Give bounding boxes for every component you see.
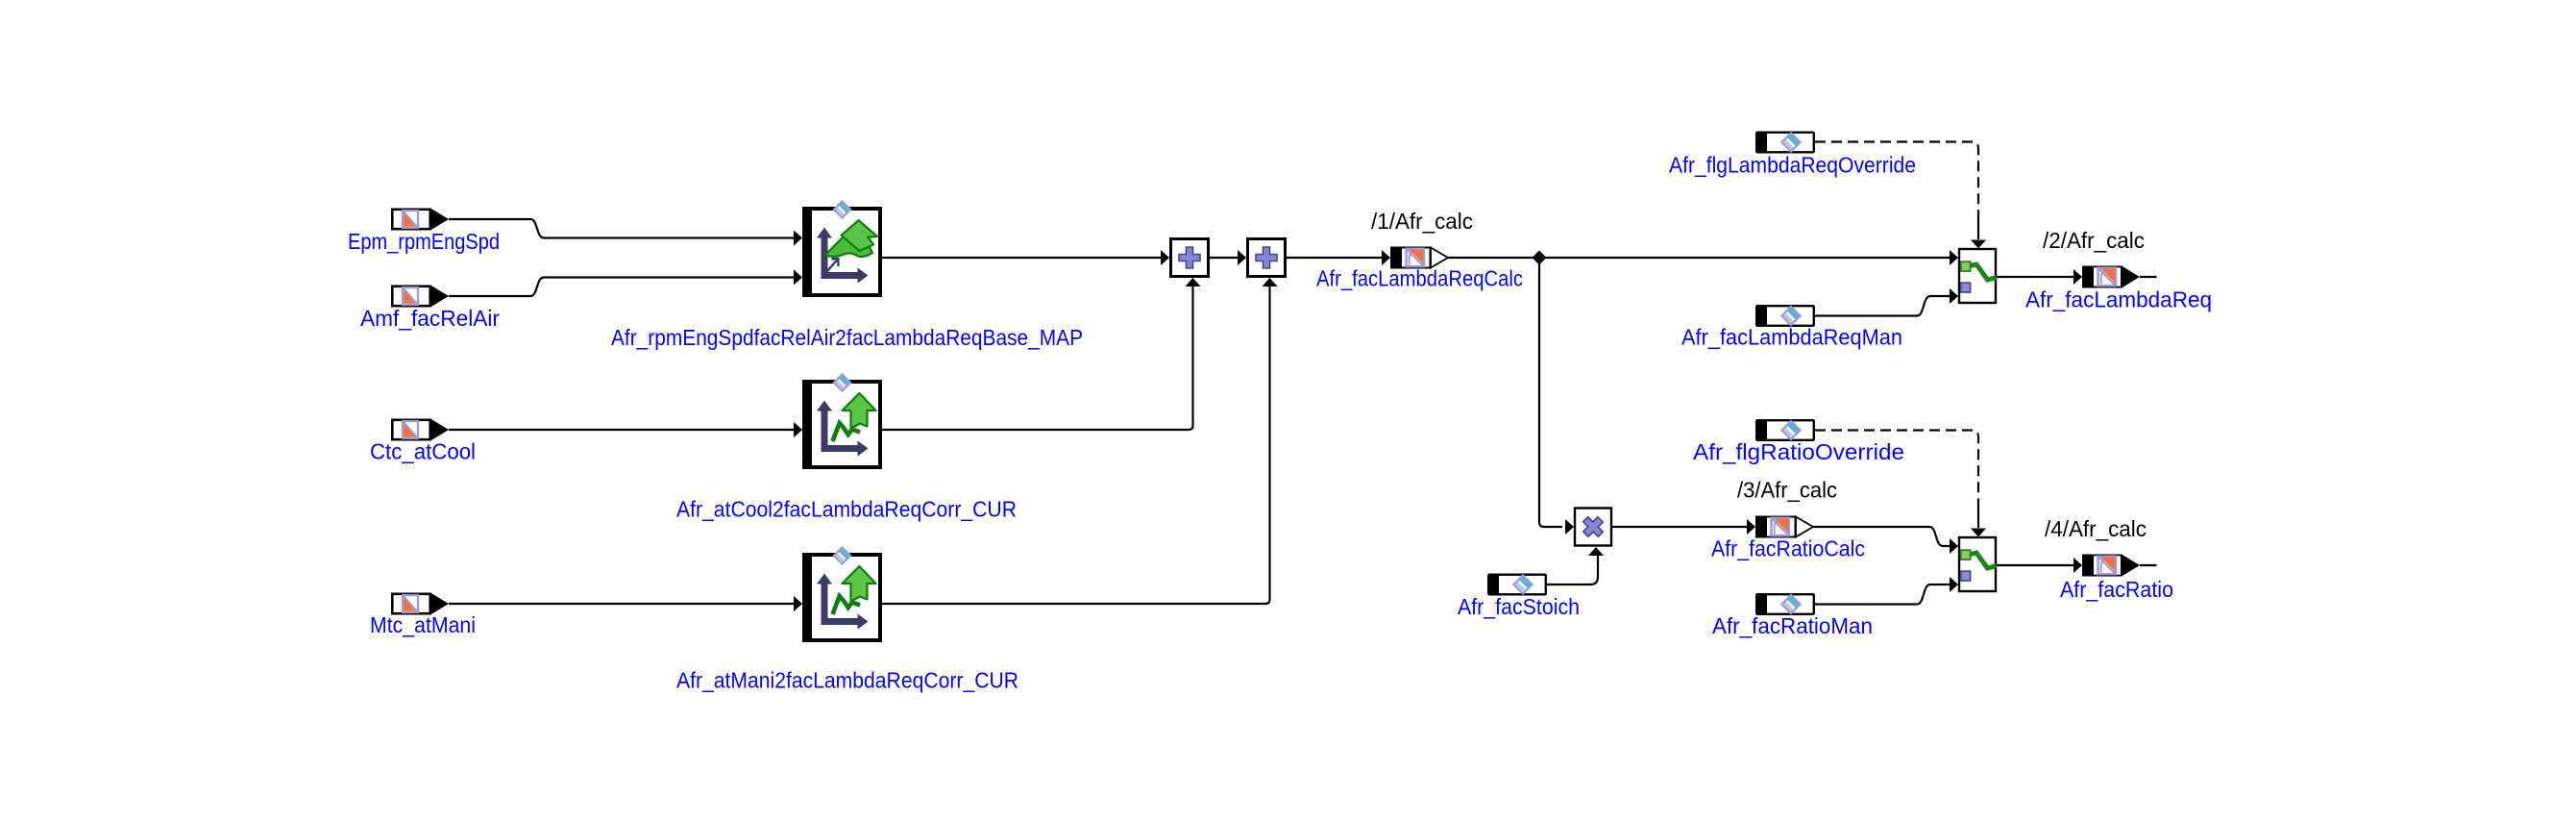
arrowhead into MAP pin 1 <box>794 231 802 246</box>
arrowhead into MAP pin 2 <box>794 270 802 286</box>
wire port /4 stub <box>2140 564 2157 566</box>
arrowhead into port /1 <box>1382 250 1390 265</box>
svg-text:Amf_facRelAir: Amf_facRelAir <box>360 306 500 331</box>
switch block switch Afr_facRatio <box>1959 537 1997 591</box>
svg-text:Afr_rpmEngSpdfacRelAir2facLamb: Afr_rpmEngSpdfacRelAir2facLambdaReqBase_… <box>611 325 1083 350</box>
wire CUR1 out to adder1 bottom <box>882 286 1193 430</box>
arrowhead into port /2 <box>2073 269 2082 285</box>
svg-text:Afr_facLambdaReqCalc: Afr_facLambdaReqCalc <box>1316 266 1523 291</box>
svg-text:Afr_facRatioMan: Afr_facRatioMan <box>1712 613 1873 638</box>
svg-text:Afr_atCool2facLambdaReqCorr_CU: Afr_atCool2facLambdaReqCorr_CUR <box>676 497 1017 522</box>
arrowhead into adder1 bottom <box>1186 278 1201 286</box>
svg-text:Ctc_atCool: Ctc_atCool <box>370 439 476 464</box>
svg-text:/4/Afr_calc: /4/Afr_calc <box>2045 516 2147 541</box>
wire switch1 to port /2 <box>1997 276 2073 278</box>
svg-text:Afr_facLambdaReq: Afr_facLambdaReq <box>2025 287 2212 312</box>
svg-text:/2/Afr_calc: /2/Afr_calc <box>2043 228 2145 253</box>
wire Afr_facStoich to multiplier bottom <box>1547 556 1598 585</box>
wire Afr_facLambdaReqMan to switch1 in2 <box>1815 296 1950 316</box>
arrowhead into adder2 bottom <box>1263 278 1278 286</box>
inner output port Afr_facLambdaReqCalc <box>1390 247 1448 269</box>
inner output port Afr_facRatioCalc <box>1755 516 1813 538</box>
arrowhead into adder2 <box>1238 250 1246 265</box>
parameter port Afr_facStoich <box>1488 575 1546 595</box>
arrowhead into port /3 <box>1747 519 1755 535</box>
svg-text:Mtc_atMani: Mtc_atMani <box>370 612 476 637</box>
wire port /2 stub <box>2140 276 2157 278</box>
arrowhead into switch1 in2 <box>1950 288 1958 304</box>
wire port /1 to switch1 in1 <box>1448 257 1950 259</box>
characteristic curve block Afr_atMani2facLambdaReqCorr_CUR <box>802 548 882 642</box>
parameter port Afr_flgLambdaReqOverride <box>1756 133 1814 153</box>
wire Afr_flgLambdaReqOverride dashed <box>1815 142 1978 223</box>
wire Epm_rpmEngSpd to MAP in1 <box>449 219 794 238</box>
arrowhead into CUR2 pin <box>794 596 802 611</box>
svg-text:/3/Afr_calc: /3/Afr_calc <box>1737 478 1837 503</box>
arrowhead into multiplier bottom <box>1588 547 1604 556</box>
arrowhead into switch2 top <box>1971 529 1986 537</box>
wire CUR2 out to adder2 bottom <box>882 286 1270 604</box>
arrowhead into switch1 top <box>1971 240 1986 249</box>
wire adder1 to adder2 <box>1210 257 1238 259</box>
parameter port Afr_flgRatioOverride <box>1756 420 1814 440</box>
parameter port Afr_facRatioMan <box>1756 594 1814 614</box>
adder block adder 2 <box>1248 239 1286 277</box>
svg-text:Afr_facRatio: Afr_facRatio <box>2060 577 2173 602</box>
arrowhead into adder1 <box>1161 250 1169 265</box>
arrowhead into switch2 in1 <box>1950 538 1958 554</box>
wire Afr_flgLambdaReqOverride dashed tail <box>1977 220 1979 239</box>
switch block switch Afr_facLambdaReq <box>1959 249 1997 303</box>
svg-text:Afr_facRatioCalc: Afr_facRatioCalc <box>1711 536 1865 561</box>
arrowhead into CUR1 pin <box>794 422 802 437</box>
wire Afr_facRatioMan to switch2 in2 <box>1815 585 1950 605</box>
svg-text:/1/Afr_calc: /1/Afr_calc <box>1371 209 1473 234</box>
output port Afr_facRatio <box>2082 555 2140 577</box>
svg-text:Afr_atMani2facLambdaReqCorr_CU: Afr_atMani2facLambdaReqCorr_CUR <box>676 668 1018 693</box>
arrowhead into multiplier in1 <box>1565 519 1574 535</box>
input port Ctc_atCool <box>392 419 449 441</box>
arrowhead into switch1 in1 <box>1950 250 1958 265</box>
svg-text:Afr_flgLambdaReqOverride: Afr_flgLambdaReqOverride <box>1669 153 1916 178</box>
wire junction down to multiplier <box>1539 258 1562 527</box>
svg-text:Afr_facStoich: Afr_facStoich <box>1458 594 1580 619</box>
svg-text:Afr_facLambdaReqMan: Afr_facLambdaReqMan <box>1681 325 1902 350</box>
input port Amf_facRelAir <box>392 286 449 308</box>
wire Amf_facRelAir to MAP in2 <box>449 278 794 297</box>
svg-text:Epm_rpmEngSpd: Epm_rpmEngSpd <box>348 229 500 254</box>
output port Afr_facLambdaReq <box>2082 266 2140 288</box>
wire switch2 to port /4 <box>1997 564 2073 566</box>
wire Afr_flgRatioOverride dashed tail <box>1977 509 1979 528</box>
wire adder2 to port /1/Afr_calc <box>1287 257 1382 259</box>
characteristic map block Afr_rpmEngSpdfacRelAir2facLambdaReqBase_MAP <box>802 202 882 297</box>
characteristic curve block Afr_atCool2facLambdaReqCorr_CUR <box>802 375 882 469</box>
arrowhead into port /4 <box>2073 558 2082 573</box>
adder block adder 1 <box>1171 239 1209 277</box>
wire Ctc_atCool to CUR1 <box>449 429 794 431</box>
wire MAP out to adder1 <box>882 257 1161 259</box>
input port Epm_rpmEngSpd <box>392 209 449 231</box>
arrowhead into switch2 in2 <box>1950 577 1958 592</box>
wire Mtc_atMani to CUR2 <box>449 603 794 605</box>
wire port /3 to switch2 in1 <box>1813 527 1950 546</box>
junction node Afr_facLambdaReqCalc <box>1533 251 1547 265</box>
parameter port Afr_facLambdaReqMan <box>1756 306 1814 326</box>
wire Afr_flgRatioOverride dashed <box>1815 431 1978 511</box>
multiplier block multiplier <box>1575 509 1611 546</box>
wire multiplier to port /3 <box>1612 526 1747 528</box>
svg-text:Afr_flgRatioOverride: Afr_flgRatioOverride <box>1693 439 1904 464</box>
input port Mtc_atMani <box>392 593 449 615</box>
